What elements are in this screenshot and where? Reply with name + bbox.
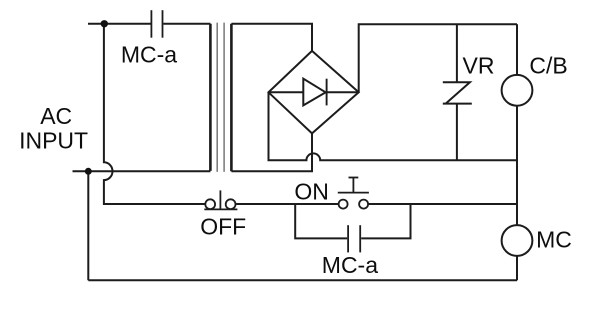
svg-text:ON: ON (294, 179, 329, 205)
svg-text:MC-a: MC-a (322, 252, 378, 278)
svg-text:MC: MC (536, 226, 572, 252)
svg-text:AC: AC (40, 103, 72, 129)
svg-text:INPUT: INPUT (19, 127, 88, 153)
svg-text:C/B: C/B (529, 53, 567, 79)
svg-text:OFF: OFF (200, 214, 246, 240)
svg-text:MC-a: MC-a (121, 42, 177, 68)
svg-text:VR: VR (463, 53, 495, 79)
